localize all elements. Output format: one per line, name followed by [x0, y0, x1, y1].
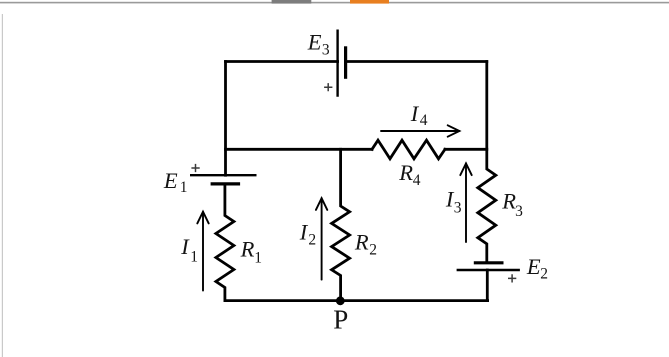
svg-text:R: R — [240, 236, 255, 261]
svg-text:3: 3 — [322, 41, 330, 58]
svg-text:E: E — [526, 254, 541, 279]
svg-text:4: 4 — [413, 172, 421, 189]
svg-text:1: 1 — [190, 248, 198, 265]
svg-text:2: 2 — [308, 232, 316, 249]
svg-text:1: 1 — [180, 179, 188, 196]
svg-text:2: 2 — [369, 241, 377, 258]
svg-text:3: 3 — [454, 200, 462, 217]
svg-text:I: I — [299, 220, 309, 245]
svg-text:E: E — [307, 30, 322, 55]
svg-text:3: 3 — [515, 203, 523, 220]
svg-text:R: R — [501, 189, 516, 214]
svg-text:R: R — [398, 160, 413, 185]
svg-text:I: I — [410, 101, 420, 126]
svg-text:1: 1 — [254, 250, 262, 267]
svg-text:2: 2 — [540, 266, 548, 283]
svg-text:R: R — [354, 230, 369, 255]
svg-text:P: P — [333, 305, 348, 335]
svg-text:E: E — [163, 168, 178, 193]
svg-text:4: 4 — [420, 112, 428, 129]
svg-text:I: I — [180, 234, 190, 259]
